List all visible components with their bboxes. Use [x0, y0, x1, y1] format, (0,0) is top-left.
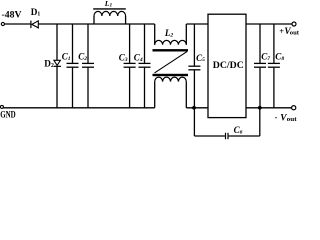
- terminal +Vout: [292, 22, 296, 26]
- diode D1: [31, 21, 38, 29]
- L2 bottom winding: [155, 77, 187, 108]
- terminal GND: [0, 105, 3, 108]
- capacitor C4: [139, 24, 151, 108]
- terminal -48V: [1, 22, 4, 25]
- capacitor C5: [188, 24, 200, 108]
- capacitor C6 branch wire left riser: [193, 108, 195, 136]
- svg-text:out: out: [290, 30, 299, 36]
- capacitor C7: [254, 24, 266, 108]
- node junction right (C7/C6 branch): [258, 106, 262, 110]
- capacitor C6 branch wire bottom left: [194, 135, 225, 137]
- bus GND left segment: [3, 107, 154, 109]
- L2 core bar top: [153, 49, 189, 51]
- common-mode choke L2 top winding: [155, 24, 187, 45]
- svg-text:out: out: [287, 117, 297, 123]
- svg-text:DC/DC: DC/DC: [213, 61, 244, 71]
- L2 diagonal: [155, 52, 188, 73]
- terminal -Vout: [292, 106, 296, 110]
- svg-text:-: -: [275, 113, 278, 122]
- capacitor C6 branch wire right riser: [259, 108, 261, 136]
- capacitor C6 plates: [225, 133, 226, 139]
- bus segment L2 to box: [186, 107, 208, 109]
- capacitor C1: [67, 24, 79, 108]
- DC/DC converter box U1: [208, 14, 246, 117]
- capacitor C2: [82, 24, 94, 108]
- wire top left to D1: [5, 23, 31, 25]
- wire L2 to DC/DC box top: [186, 23, 208, 25]
- capacitor C8: [268, 24, 280, 108]
- L2 core bar bottom: [153, 74, 189, 76]
- capacitor C6 branch wire bottom right: [229, 135, 260, 137]
- node junction left (C5/C6 branch): [192, 106, 196, 110]
- wire D1 to L2: [38, 23, 154, 25]
- inductor L1: [93, 9, 126, 24]
- svg-text:-48V: -48V: [2, 10, 22, 21]
- wire box to +Vout: [246, 23, 292, 25]
- diode D2: [54, 24, 61, 108]
- capacitor C3: [124, 24, 136, 108]
- svg-text:GND: GND: [0, 111, 16, 121]
- bus segment box to -Vout: [246, 107, 292, 109]
